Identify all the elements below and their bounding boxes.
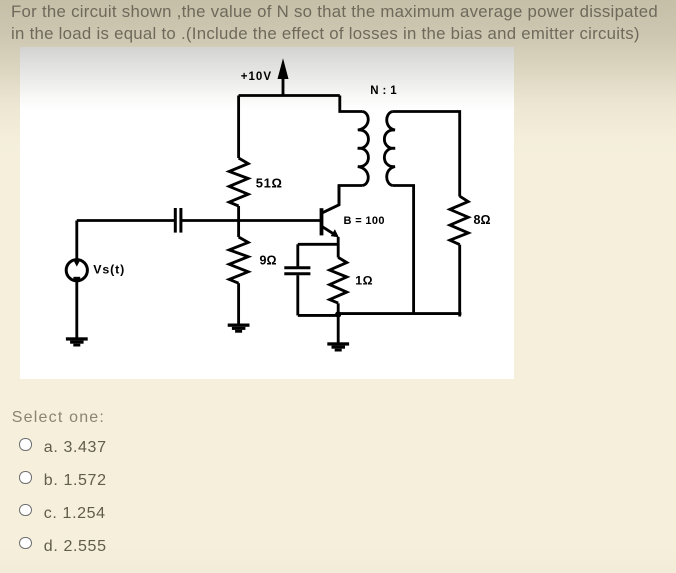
svg-text:1Ω: 1Ω xyxy=(355,274,373,288)
resistor R1 51ohm xyxy=(229,158,248,206)
wire: bottom rail right xyxy=(338,312,461,315)
wire: 51ohm branch top xyxy=(237,96,240,159)
svg-text:B = 100: B = 100 xyxy=(344,215,385,227)
svg-text:Vs(t): Vs(t) xyxy=(93,262,125,276)
transistor Q1 emitter lead with arrow xyxy=(322,226,339,257)
wire: R2 to ground xyxy=(237,283,240,324)
svg-text:51Ω: 51Ω xyxy=(256,176,283,191)
wire: primary bottom lead to collector xyxy=(339,186,363,206)
source Vs(t) xyxy=(66,260,87,281)
wire: secondary top lead to load branch xyxy=(393,112,460,197)
capacitor C1 coupling xyxy=(175,208,181,233)
wire: source to ground xyxy=(75,281,78,338)
wire: bypass cap branch upper xyxy=(296,244,299,266)
resistor R3 1ohm xyxy=(330,257,347,303)
wire: input node to coupling capacitor xyxy=(77,219,175,222)
transformer T1 secondary coil xyxy=(384,112,395,186)
wire: +10V supply top rail xyxy=(239,94,340,97)
power supply +10V arrow xyxy=(278,58,289,95)
ground: below R2 9ohm xyxy=(228,324,250,333)
wire: capacitor to transistor base xyxy=(181,219,322,222)
wire: secondary bottom lead down xyxy=(393,186,414,314)
ground: below emitter network xyxy=(327,342,349,351)
resistor R4 8ohm load xyxy=(450,196,468,244)
wire: R4 bottom to rail xyxy=(458,245,461,317)
node: emitter bottom junction xyxy=(335,311,341,317)
transformer T1 primary coil xyxy=(358,112,369,186)
wire: bottom node to ground xyxy=(337,315,340,343)
wire: between R1 and R2 crossing base node xyxy=(237,206,240,237)
wire: supply rail step down to transformer primary xyxy=(340,96,363,112)
svg-text:+10V: +10V xyxy=(241,71,272,83)
capacitor C2 bypass xyxy=(284,268,310,274)
wire: source branch down xyxy=(75,221,78,260)
resistor R2 9ohm xyxy=(229,237,248,283)
wire: bottom rail left xyxy=(298,314,338,317)
ground: below source xyxy=(66,337,88,346)
svg-text:9Ω: 9Ω xyxy=(260,254,277,268)
wire: R3 to bottom rail xyxy=(337,303,340,315)
transistor Q1 collector lead xyxy=(322,186,340,214)
transistor Q1 base bar xyxy=(320,208,324,235)
wire: bypass cap branch lower xyxy=(296,275,299,315)
svg-text:N : 1: N : 1 xyxy=(370,85,397,97)
wire: emitter top rail to bypass cap xyxy=(298,243,338,246)
svg-text:8Ω: 8Ω xyxy=(474,213,491,227)
